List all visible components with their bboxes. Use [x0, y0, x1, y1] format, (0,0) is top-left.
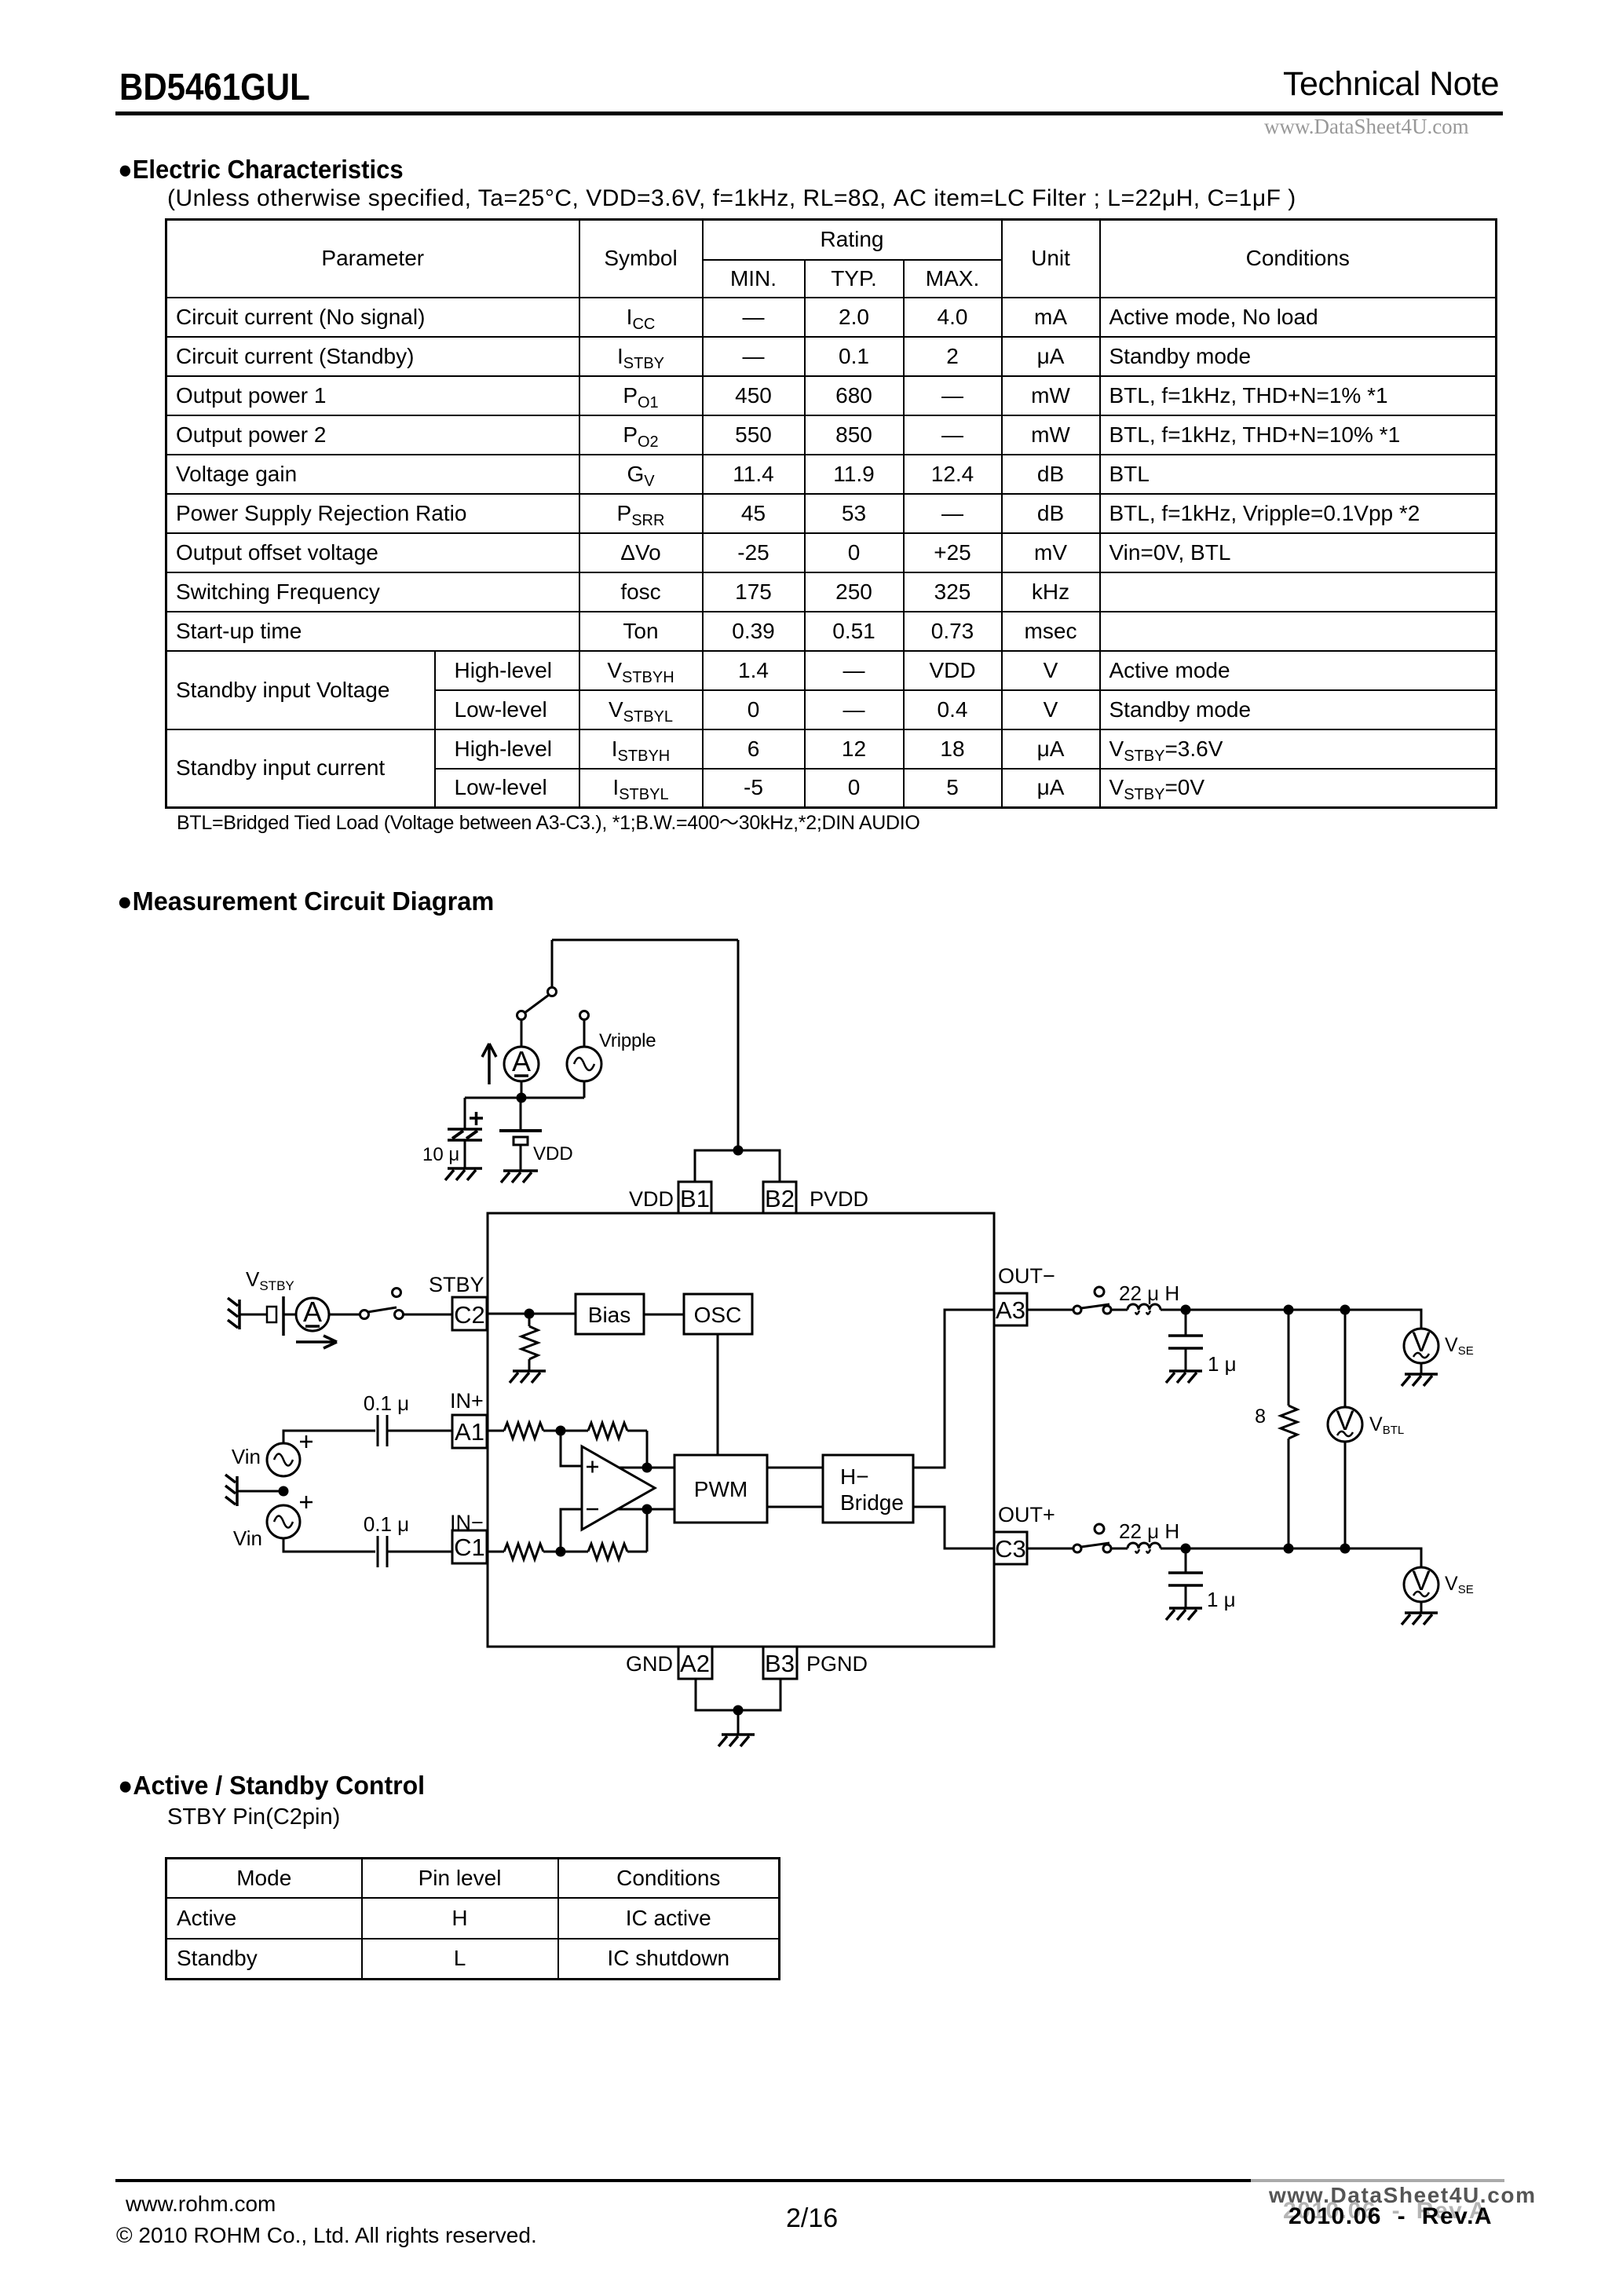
svg-text:B3: B3	[765, 1650, 795, 1677]
svg-text:VSE: VSE	[1445, 1573, 1474, 1596]
svg-text:GND: GND	[626, 1652, 673, 1676]
inductor 22uH lower	[1111, 1543, 1161, 1553]
wire ground stub	[737, 1710, 740, 1735]
svg-text:A1: A1	[455, 1418, 484, 1446]
resistor load 8 ohm	[1281, 1310, 1297, 1548]
capacitor 1u lower	[1168, 1548, 1203, 1608]
wire feedback plus down	[646, 1431, 649, 1468]
block OSC	[684, 1294, 752, 1334]
svg-text:VBTL: VBTL	[1369, 1413, 1404, 1437]
resistor input plus	[487, 1423, 561, 1439]
source Vin upper	[267, 1443, 300, 1476]
block Bias	[576, 1294, 644, 1334]
svg-text:STBY: STBY	[429, 1273, 484, 1296]
svg-text:1 μ: 1 μ	[1208, 1352, 1237, 1376]
svg-text:10 μ: 10 μ	[422, 1144, 459, 1165]
wire lower line to VSE lower	[1345, 1548, 1421, 1567]
switch S1	[517, 988, 557, 1020]
wire PWM to HBridge lower	[767, 1506, 823, 1508]
polarity plus Vin lower	[300, 1496, 313, 1508]
wire VSTBY ground to battery	[239, 1314, 267, 1316]
svg-text:22 μ H: 22 μ H	[1119, 1281, 1179, 1305]
node LC lower	[1181, 1544, 1191, 1554]
switch S3	[1073, 1287, 1111, 1314]
wire HBridge to C3	[913, 1507, 994, 1548]
capacitor C 10u polarized plates	[448, 1129, 482, 1140]
svg-text:H−: H−	[840, 1464, 869, 1489]
node pwm minus	[642, 1504, 652, 1515]
wire PWM to HBridge upper	[767, 1467, 823, 1469]
node supply junction	[517, 1093, 527, 1103]
svg-text:Bias: Bias	[588, 1303, 631, 1327]
svg-text:VSE: VSE	[1445, 1334, 1474, 1358]
wire Vin ground to junction	[237, 1490, 283, 1493]
svg-text:A3: A3	[996, 1296, 1025, 1324]
wire A3 to switch S3	[1027, 1309, 1073, 1311]
wire A2 B3 tie	[696, 1679, 780, 1710]
svg-text:A2: A2	[680, 1650, 710, 1677]
svg-text:Bridge: Bridge	[840, 1490, 904, 1515]
source Vripple	[567, 1047, 601, 1081]
resistor input minus	[487, 1544, 561, 1559]
svg-text:PVDD: PVDD	[810, 1187, 868, 1211]
node stby resistor tap	[525, 1309, 535, 1319]
svg-text:8: 8	[1255, 1406, 1266, 1428]
wire Bias to OSC	[644, 1314, 684, 1316]
wire upper line to R8 node	[1186, 1309, 1289, 1311]
wire ammeter to junction	[521, 1081, 523, 1098]
svg-text:C1: C1	[454, 1534, 485, 1561]
arrow current direction up	[482, 1044, 496, 1084]
svg-text:1 μ: 1 μ	[1207, 1588, 1236, 1611]
svg-text:0.1 μ: 0.1 μ	[364, 1512, 409, 1536]
node VBTL lower	[1340, 1544, 1351, 1554]
svg-text:Vripple: Vripple	[599, 1030, 656, 1051]
wire Vin upper to cap	[283, 1431, 375, 1443]
switch S4	[1073, 1524, 1111, 1552]
capacitor 0.1u upper	[378, 1415, 452, 1446]
node B1 B2 tie	[733, 1146, 744, 1156]
node pwm plus	[642, 1463, 652, 1473]
ground VSE upper	[1402, 1374, 1438, 1386]
svg-text:IN−: IN−	[450, 1511, 484, 1534]
wire node to opamp plus	[561, 1431, 582, 1466]
ground VSE lower	[1402, 1613, 1438, 1625]
svg-text:VDD: VDD	[629, 1187, 674, 1211]
wire upper line to VSE	[1345, 1310, 1421, 1329]
svg-text:22 μ H: 22 μ H	[1119, 1519, 1179, 1543]
svg-text:B2: B2	[765, 1185, 795, 1212]
block H-Bridge	[823, 1455, 913, 1523]
wire R8 node to VBTL node lower	[1289, 1548, 1345, 1550]
svg-text:V: V	[1412, 1566, 1431, 1596]
wire supply right vertical to pins	[737, 940, 740, 1150]
wire Vripple lead	[583, 1019, 586, 1047]
op-amp U1	[582, 1446, 655, 1530]
ground A2 B3	[718, 1735, 755, 1746]
wire feedback minus up	[646, 1509, 649, 1552]
switch S2 STBY	[360, 1289, 404, 1319]
resistor feedback plus	[561, 1423, 647, 1439]
ammeter A (supply current)	[504, 1045, 539, 1081]
node ground tie	[733, 1706, 744, 1716]
wire inductor to node upper	[1161, 1309, 1186, 1311]
wire S1 to ammeter A	[521, 1019, 523, 1047]
ground below 10u cap	[445, 1168, 482, 1180]
svg-text:A: A	[512, 1045, 531, 1077]
wire HBridge to A3	[913, 1310, 994, 1468]
IC body BD5461GUL	[488, 1213, 994, 1647]
capacitor C 10u leads	[464, 1098, 466, 1168]
wire ammeter to switch S2	[329, 1314, 360, 1316]
pin A2	[678, 1647, 712, 1679]
capacitor 0.1u lower	[378, 1536, 452, 1567]
pin C2	[452, 1297, 487, 1330]
polarity plus 10u	[470, 1112, 483, 1125]
wire switch S1 upper lead	[551, 940, 554, 988]
wire lower line nodes	[1186, 1548, 1289, 1550]
inductor 22uH upper	[1111, 1304, 1161, 1314]
ground 1u lower	[1166, 1608, 1202, 1620]
svg-text:B1: B1	[680, 1185, 710, 1212]
source Vin lower	[267, 1505, 300, 1538]
pin C1	[452, 1530, 487, 1563]
node opamp plus input	[556, 1426, 566, 1436]
meter VSE upper	[1404, 1327, 1438, 1363]
ground 1u upper	[1166, 1371, 1202, 1383]
section: Measurement Circuit Diagram	[117, 887, 494, 916]
svg-text:Vin: Vin	[232, 1445, 261, 1468]
pin B2	[763, 1182, 796, 1213]
node R8 lower	[1284, 1544, 1294, 1554]
ground VSTBY source	[228, 1298, 239, 1329]
resistor stby pulldown	[521, 1314, 538, 1371]
wire OSC to PWM	[717, 1334, 719, 1455]
svg-text:V: V	[1336, 1406, 1354, 1436]
header	[119, 66, 310, 109]
svg-text:Vin: Vin	[233, 1526, 262, 1550]
capacitor 1u upper	[1168, 1310, 1203, 1371]
svg-text:OUT+: OUT+	[998, 1503, 1055, 1526]
terminal Vripple open contact	[580, 1011, 589, 1020]
svg-text:OSC: OSC	[694, 1303, 742, 1327]
wire C2 to Bias	[487, 1313, 576, 1315]
svg-text:C3: C3	[995, 1535, 1026, 1563]
pin C3	[994, 1532, 1027, 1564]
wire Vin lower to cap	[283, 1538, 375, 1552]
pin B3	[763, 1647, 797, 1679]
svg-text:VSTBY: VSTBY	[246, 1267, 294, 1293]
node opamp minus input	[556, 1547, 566, 1557]
svg-text:C2: C2	[454, 1301, 485, 1329]
polarity plus Vin upper	[300, 1435, 313, 1448]
footer	[115, 2179, 1251, 2182]
wire C3 to switch S4	[1027, 1548, 1073, 1550]
wire VSE upper ground lead	[1420, 1363, 1423, 1374]
wire B1 B2 tee	[695, 1150, 780, 1182]
resistor feedback minus	[561, 1544, 647, 1559]
node VBTL upper	[1340, 1305, 1351, 1315]
svg-text:VDD: VDD	[533, 1143, 573, 1164]
wire to VBTL node upper	[1289, 1309, 1345, 1311]
wire inductor to node lower	[1161, 1548, 1186, 1550]
battery VSTBY	[267, 1296, 296, 1336]
svg-text:0.1 μ: 0.1 μ	[364, 1391, 409, 1415]
svg-text:PGND: PGND	[806, 1652, 868, 1676]
wire opamp out plus to PWM	[619, 1467, 674, 1469]
svg-text:V: V	[1412, 1327, 1431, 1358]
wire top supply horizontal	[552, 939, 738, 941]
wire S2 to pin C2	[403, 1314, 452, 1316]
battery VDD plates	[499, 1098, 542, 1171]
section: Active / Standby Control	[118, 1771, 425, 1801]
wire opamp out minus to PWM	[618, 1508, 674, 1511]
ground stby resistor	[510, 1371, 546, 1383]
svg-text:PWM: PWM	[694, 1477, 748, 1501]
wire VSE lower ground lead	[1420, 1602, 1423, 1613]
wire VBTL lower lead	[1344, 1442, 1347, 1548]
ammeter standby current	[296, 1296, 329, 1331]
ground below battery VDD	[501, 1171, 538, 1183]
ground Vin source	[225, 1475, 237, 1506]
pin B1	[678, 1182, 711, 1213]
svg-text:OUT−: OUT−	[998, 1264, 1055, 1288]
svg-text:IN+: IN+	[450, 1389, 484, 1413]
node R8 upper	[1284, 1305, 1294, 1315]
meter VBTL	[1328, 1406, 1362, 1442]
node LC upper	[1181, 1305, 1191, 1315]
arrow standby current right	[296, 1336, 337, 1348]
wire VBTL upper lead	[1344, 1310, 1347, 1407]
pin A3	[994, 1293, 1027, 1325]
pin A1	[452, 1415, 487, 1448]
meter VSE lower	[1404, 1566, 1438, 1602]
section: Electric Characteristics	[118, 155, 404, 185]
wire supply junction horizontal	[465, 1097, 584, 1099]
block PWM	[674, 1455, 767, 1523]
svg-text:A: A	[303, 1296, 322, 1328]
wire node to opamp minus	[561, 1509, 582, 1552]
node Vin common	[279, 1486, 289, 1497]
wire Vripple to junction	[583, 1081, 586, 1098]
